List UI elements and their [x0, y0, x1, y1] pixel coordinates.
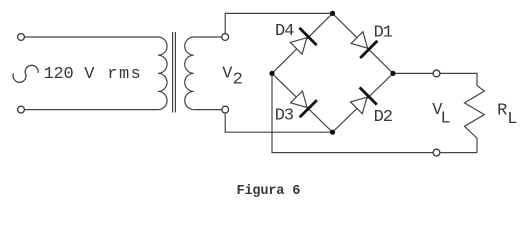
wire primary bottom — [25, 109, 158, 111]
wire secondary bottom terminal to bridge bottom node — [225, 113, 332, 132]
source terminal top — [18, 34, 25, 41]
svg-text:120: 120 — [44, 65, 74, 84]
resistor RL zigzag — [465, 86, 485, 153]
svg-text:Figura 6: Figura 6 — [237, 184, 301, 199]
transformer T1 secondary winding — [185, 37, 194, 110]
secondary terminal top — [222, 34, 229, 41]
secondary terminal bottom — [222, 106, 229, 113]
node bottom junction dot — [330, 130, 335, 135]
svg-text:2: 2 — [233, 71, 243, 90]
wire resistor bottom to output bottom terminal — [440, 152, 477, 154]
output terminal top — [433, 70, 440, 77]
bridge arm left-top (D4 arm) — [272, 13, 333, 73]
output terminal bottom — [433, 149, 440, 156]
svg-text:D3: D3 — [275, 107, 294, 126]
svg-text:V: V — [222, 64, 233, 83]
bridge arm bottom-right (D2 arm) — [333, 73, 394, 132]
svg-text:D2: D2 — [374, 108, 392, 127]
diode D1 triangle — [351, 32, 368, 49]
diode D3 cathode bar — [300, 100, 317, 117]
svg-text:rms: rms — [107, 65, 142, 84]
transformer T1 core — [172, 32, 174, 113]
diode D4 cathode bar — [299, 28, 316, 45]
wire output bottom terminal to bridge left node — [272, 76, 433, 153]
AC source sine symbol — [13, 65, 38, 82]
wire secondary top to terminal — [194, 36, 222, 38]
svg-text:D1: D1 — [374, 24, 393, 43]
wire secondary bottom to terminal — [194, 109, 222, 111]
svg-text:D4: D4 — [275, 22, 294, 41]
diode D1 cathode bar — [360, 41, 377, 58]
svg-text:L: L — [441, 109, 451, 128]
diode D2 cathode bar — [360, 87, 377, 104]
diode D4 triangle — [290, 38, 307, 55]
bridge arm left-bottom (D3 arm) — [272, 73, 333, 132]
svg-text:L: L — [507, 110, 517, 129]
wire primary top — [25, 36, 158, 38]
transformer T1 primary winding — [158, 37, 167, 110]
wire output top terminal to resistor — [440, 73, 477, 85]
node left junction dot — [269, 71, 274, 76]
bridge arm top-right (D1 arm) — [333, 13, 394, 73]
node top junction dot — [330, 11, 335, 16]
svg-text:R: R — [497, 102, 507, 121]
svg-text:V: V — [84, 65, 95, 84]
source terminal bottom — [18, 106, 25, 113]
node right junction dot — [390, 71, 395, 76]
diode D3 triangle — [291, 91, 308, 108]
diode D2 triangle — [351, 97, 368, 114]
wire secondary top terminal to bridge top node — [225, 13, 332, 33]
wire bridge right node to output top terminal — [393, 72, 433, 74]
